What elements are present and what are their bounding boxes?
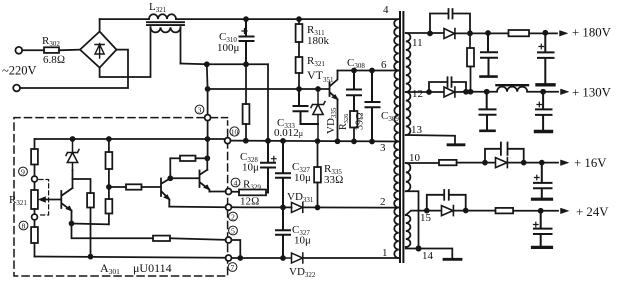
mid chain resistor lower: [106, 199, 113, 214]
svg-text:5: 5: [231, 226, 235, 235]
ground bar elcap 180: [537, 83, 554, 86]
svg-text:11: 11: [412, 37, 423, 49]
junction riser base line: [206, 87, 210, 91]
node 3 riser wire: [206, 64, 209, 114]
wire bridge bottom to choke bottom left (DC minus): [100, 27, 151, 77]
line pin7 to transformer pin1: [232, 257, 399, 259]
svg-text:2: 2: [231, 212, 235, 221]
ground bar 13: [448, 143, 464, 146]
secondary winding section B: [406, 163, 411, 191]
base line wire to VT351: [208, 88, 329, 90]
mid chain resistor upper: [107, 137, 111, 141]
pin 10 circle: [225, 138, 231, 144]
choke L321 core bars: [147, 22, 184, 25]
arrow 16V: [561, 160, 569, 165]
svg-text:10: 10: [231, 128, 239, 136]
plus elcap 16: [535, 175, 540, 180]
wire AC bottom to bridge right corner: [20, 50, 128, 88]
transistor Q2: [161, 178, 170, 206]
resistor R329: [232, 191, 240, 194]
Q1 emitter arrow: [66, 206, 71, 211]
resistor R326: [350, 111, 357, 128]
wire tap15: [406, 211, 442, 215]
svg-text:12: 12: [412, 88, 423, 100]
pin3 riser inside IC: [207, 121, 209, 159]
diode 16V: [496, 158, 508, 168]
wire R302 to bridge: [59, 49, 80, 52]
wire winding10 bottom riser: [406, 191, 419, 248]
junction R311 top: [297, 17, 301, 21]
svg-text:+ 180V: + 180V: [572, 26, 612, 40]
svg-text:R321: R321: [307, 55, 325, 68]
arrow 24V: [561, 208, 569, 213]
junction lower rail to pin3 riser: [205, 62, 209, 66]
zener VD335: [311, 89, 325, 141]
svg-text:2: 2: [380, 196, 386, 208]
resistor R321 upper: [296, 57, 303, 73]
internal top rail: [35, 138, 225, 140]
cap 130 mid to ground: [480, 92, 496, 130]
svg-text:7: 7: [231, 263, 235, 272]
junction C308 bottom: [352, 139, 356, 143]
elcap 180: [538, 33, 554, 84]
junction 180 bypass return: [468, 31, 472, 35]
bypass cap 180V: [430, 9, 470, 33]
potentiometer R321: [34, 182, 36, 190]
junction tap11: [428, 31, 432, 35]
resistor 180V line: [509, 30, 530, 36]
junction 16 bypass left: [483, 161, 487, 165]
svg-text:14: 14: [422, 250, 434, 262]
junction mid left bottom rail: [89, 255, 93, 259]
capacitor C309: [366, 71, 380, 142]
junction C309 bottom: [370, 140, 374, 144]
pin 4 circle: [226, 189, 232, 195]
svg-text:VD335: VD335: [325, 107, 338, 134]
svg-text:39Ω: 39Ω: [355, 112, 366, 130]
elcap 24: [534, 211, 552, 246]
junction 24 elcap: [539, 209, 543, 213]
elcap 16: [534, 163, 552, 198]
choke L321 bottom winding: [151, 27, 181, 32]
junction riser rail: [206, 137, 210, 141]
svg-text:3: 3: [198, 105, 202, 114]
Q2 emitter arrow: [164, 195, 169, 200]
line 180V: [456, 32, 557, 34]
capacitor C327 upper: [276, 141, 290, 208]
svg-text:R326: R326: [338, 113, 350, 130]
internal bottom rail: [35, 257, 226, 258]
resistor mid left: [87, 193, 94, 208]
wire tap12: [406, 91, 444, 93]
resistor R302: [44, 47, 59, 53]
pin 4 glyph: [231, 178, 240, 187]
VT351 emitter arrow: [332, 95, 338, 100]
svg-text:12Ω: 12Ω: [240, 196, 259, 208]
wire Q2 emitter to pin2: [169, 206, 225, 209]
junction C327 pin2: [281, 205, 285, 209]
svg-text:6: 6: [381, 59, 387, 71]
junction x268 on pin10 line: [266, 139, 270, 143]
wire pin5 to bottom line: [232, 240, 241, 258]
junction VD335 top: [316, 87, 320, 91]
emitter horizontal line: [72, 223, 109, 226]
ground bar elcap 130: [536, 130, 552, 133]
svg-text:13: 13: [411, 124, 423, 136]
ground bar elcap 24: [533, 246, 552, 249]
bridge rectifier diamond: [80, 32, 117, 68]
pot wiper arrow: [41, 199, 47, 201]
capacitor C333: [294, 89, 319, 124]
svg-text:1: 1: [382, 247, 388, 259]
svg-text:+ 24V: + 24V: [576, 205, 609, 219]
wire AC top to R302: [22, 49, 44, 51]
wire Q3 emitter to pin4: [210, 191, 226, 193]
svg-text:+ 130V: + 130V: [572, 86, 612, 100]
svg-text:33Ω: 33Ω: [324, 174, 343, 186]
left chain resistor upper: [34, 139, 36, 149]
junction C308 top: [352, 69, 356, 73]
svg-text:~220V: ~220V: [2, 64, 37, 78]
resistor R335: [317, 141, 319, 167]
resistor 16V line: [439, 160, 457, 165]
pin 2 glyph: [229, 212, 238, 221]
capacitor C308: [347, 71, 361, 112]
pin 3 circle: [205, 115, 211, 121]
svg-text:VD331: VD331: [287, 191, 314, 204]
junction C327 lower bottom: [281, 256, 285, 260]
wire lower rail corner down to C328 column: [267, 64, 269, 162]
inductor 130V: [497, 84, 529, 86]
junction 130 elcap: [541, 90, 545, 94]
junction VT351 emitter pin3 line: [336, 139, 340, 143]
junction collector resistor right: [205, 156, 209, 160]
junction 16 bypass right: [522, 161, 526, 165]
wire Q2 collector up: [169, 158, 171, 178]
junction 130 cap: [485, 90, 489, 94]
plus C310: [242, 29, 247, 34]
AC input terminal bottom: [13, 85, 20, 92]
junction Q1 emitter line: [70, 222, 74, 226]
svg-text:R329: R329: [243, 179, 261, 192]
pin 5 circle: [226, 237, 232, 243]
svg-text:180k: 180k: [307, 35, 330, 47]
bypass cap 16V: [485, 143, 524, 163]
junction 130 bleeder: [469, 90, 473, 94]
plus elcap 180: [539, 44, 544, 49]
zener internal: [71, 137, 75, 141]
top rail bridge to choke: [100, 18, 149, 20]
wire wiper to Q1 base: [47, 199, 61, 201]
junction riser 14 line: [416, 246, 420, 250]
wire 14 to ground: [406, 247, 453, 258]
svg-text:4: 4: [383, 4, 389, 16]
Q1 collector wire: [72, 170, 74, 188]
wire tap10: [406, 162, 439, 164]
svg-text:VD322: VD322: [289, 266, 316, 279]
diode 180V: [444, 29, 455, 39]
svg-text:6.8Ω: 6.8Ω: [43, 54, 65, 66]
resistor to Q2 base: [109, 186, 126, 188]
junction C310 top: [244, 17, 248, 21]
arrow 180V: [560, 31, 568, 36]
ground bar 180 mid: [481, 75, 497, 78]
secondary winding section C: [406, 215, 411, 247]
line 16V: [457, 162, 558, 164]
svg-text:C309: C309: [381, 110, 399, 123]
resistor 24V line: [496, 208, 514, 214]
secondary winding section A: [406, 33, 411, 135]
junction tap12: [427, 90, 431, 94]
svg-text:μU0114: μU0114: [133, 261, 172, 275]
wire tap11: [406, 32, 444, 34]
svg-text:10μ: 10μ: [242, 162, 259, 174]
capacitor C310: [240, 19, 254, 64]
transistor Q3: [200, 170, 210, 192]
line 24V: [454, 210, 558, 212]
junction 24 bypass left: [425, 209, 429, 213]
bridge internal diode: [95, 44, 104, 59]
svg-text:0.012μ: 0.012μ: [274, 127, 303, 139]
wire bridge top to top rail: [99, 19, 101, 31]
bypass cap 24V: [427, 190, 466, 211]
wire Q3 collector: [206, 158, 208, 170]
transformer core: [400, 12, 403, 262]
resistor collector top: [170, 157, 180, 159]
line pin2 to transformer: [232, 206, 399, 208]
wire Q1 emitter to pin5 line: [72, 224, 154, 239]
svg-text:15: 15: [420, 212, 432, 224]
junction pin5 joint: [238, 256, 242, 260]
elcap 130: [536, 92, 552, 130]
plus elcap 130: [537, 102, 542, 107]
junction C327 upper top: [281, 139, 285, 143]
svg-text:C308: C308: [347, 57, 365, 70]
svg-text:10μ: 10μ: [294, 172, 311, 184]
wire Q3 base from Q2 collector: [170, 177, 199, 179]
bypass cap 130V: [429, 77, 466, 92]
bleeder resistor 180-130: [469, 33, 471, 48]
junction 180 elcap: [543, 31, 547, 35]
junction R335 bottom pin2: [316, 206, 320, 210]
transistor VT351: [330, 71, 338, 142]
svg-text:100μ: 100μ: [217, 42, 240, 54]
capacitor C328: [261, 141, 275, 193]
ground bar elcap 16: [533, 198, 552, 201]
resistor unlabeled x246: [245, 64, 247, 104]
branch to mid resistor: [73, 179, 91, 193]
junction 130 bypass return: [464, 90, 468, 94]
cap 180 mid to ground: [481, 33, 497, 76]
pin 9 glyph: [19, 167, 28, 176]
choke L321 top winding: [149, 14, 176, 19]
pin 10 glyph: [230, 127, 239, 136]
junction x246 on pin10 line: [244, 139, 248, 143]
node 9 circle: [32, 176, 38, 182]
pot dashed box: [39, 180, 49, 216]
diode VD331: [292, 202, 303, 212]
IC dashed corner near pin3: [212, 117, 228, 119]
arrow 130V: [561, 89, 569, 94]
line pin10 to transformer pin3: [231, 140, 399, 143]
capacitor C327 lower: [276, 207, 290, 258]
pin 3 glyph: [195, 105, 204, 114]
left chain resistor lower: [34, 220, 36, 227]
top rail choke to transformer pin4: [176, 18, 399, 20]
resistor pin5 line: [153, 236, 170, 241]
diode VD322: [283, 253, 303, 263]
svg-text:R302: R302: [42, 35, 60, 48]
pin 7 circle: [226, 255, 232, 261]
junction 16 elcap: [540, 161, 544, 165]
junction C309 top: [370, 69, 374, 73]
junction C310 bottom: [244, 62, 248, 66]
svg-text:+ 16V: + 16V: [574, 156, 607, 170]
junction 180 cap: [486, 31, 490, 35]
pin 7 glyph: [228, 263, 237, 272]
pin 8 glyph: [19, 221, 28, 230]
lower rail (DC minus): [181, 63, 269, 66]
ground bar 14: [444, 258, 461, 261]
svg-text:L321: L321: [149, 1, 167, 14]
junction R321 bottom: [297, 87, 301, 91]
junction mid chain base node: [107, 185, 111, 189]
svg-text:9: 9: [21, 167, 25, 176]
collector line VT351 to pin6: [338, 70, 399, 72]
wire choke bottom right down to lower rail: [180, 27, 182, 63]
wire tap13 to ground: [406, 135, 455, 143]
line 130V: [456, 91, 558, 93]
ground bar 130 mid: [481, 130, 495, 133]
svg-text:A301: A301: [100, 261, 120, 276]
svg-text:R321: R321: [9, 194, 27, 207]
svg-text:3: 3: [380, 142, 386, 154]
pin 5 glyph: [229, 226, 238, 235]
IC A301 dashed boundary: [14, 118, 228, 276]
junction R335 top: [316, 139, 320, 143]
svg-text:4: 4: [234, 178, 238, 187]
transistor Q1: [61, 188, 72, 224]
node 8 circle: [32, 214, 38, 220]
svg-text:10μ: 10μ: [294, 235, 311, 247]
plus C328: [272, 156, 277, 161]
diode 24V: [442, 206, 454, 216]
pin 2 circle: [226, 204, 232, 210]
AC input terminal top: [15, 47, 22, 54]
svg-text:8: 8: [22, 221, 26, 230]
resistor R311: [298, 19, 300, 57]
Q3 emitter arrow: [204, 185, 209, 190]
junction Q2 collector Q3 base: [168, 176, 172, 180]
transformer primary winding: [394, 19, 399, 258]
junction 24 bypass right: [464, 209, 468, 213]
plus elcap 24: [534, 222, 539, 227]
diode 130V: [444, 87, 455, 97]
